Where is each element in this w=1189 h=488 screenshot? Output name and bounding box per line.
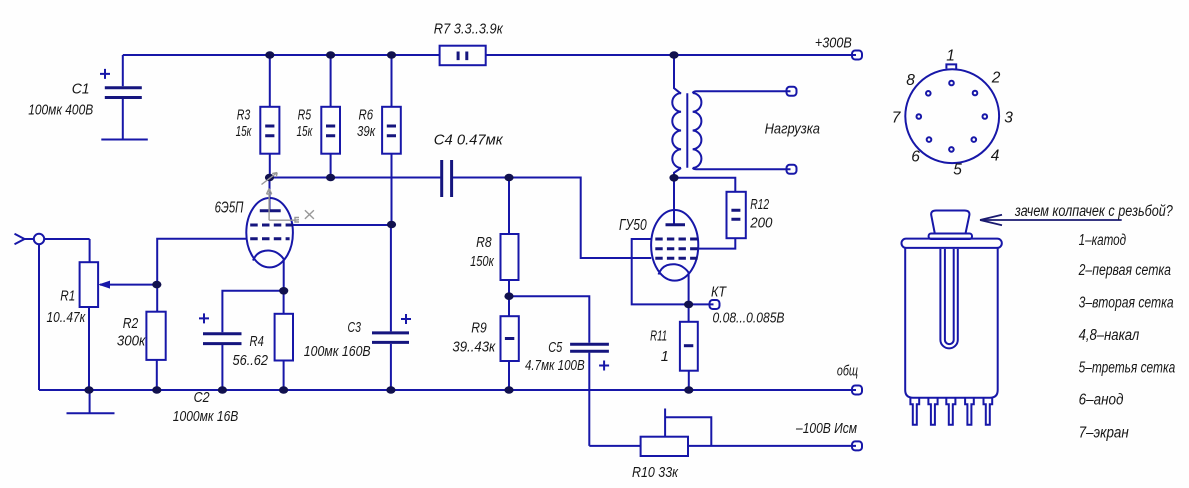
- svg-text:R10 33к: R10 33к: [632, 465, 679, 481]
- transformer primary: [672, 55, 681, 178]
- node anode bus R8: [504, 174, 513, 182]
- transformer core: [686, 93, 688, 168]
- terminal -100V: [852, 441, 862, 450]
- node rail R2: [152, 386, 161, 394]
- wire grid1 bus 6E5P: [157, 239, 246, 312]
- terminal common: [852, 386, 862, 395]
- wire to R12: [674, 178, 735, 192]
- svg-text:6: 6: [911, 149, 920, 166]
- tube pin d: [965, 398, 974, 425]
- svg-text:R4: R4: [250, 334, 264, 350]
- svg-text:ГУ50: ГУ50: [619, 217, 647, 234]
- socket pin 8: [926, 91, 931, 96]
- svg-text:100мк 160В: 100мк 160В: [304, 344, 371, 360]
- svg-text:100мк 400В: 100мк 400В: [28, 102, 93, 119]
- tube GU50: [651, 210, 698, 304]
- svg-text:10..47к: 10..47к: [47, 310, 87, 326]
- svg-text:R8: R8: [476, 235, 492, 251]
- capacitor C3: [372, 225, 411, 391]
- tube pin b: [928, 398, 937, 425]
- svg-text:3: 3: [1004, 110, 1013, 127]
- svg-text:2: 2: [991, 70, 1001, 87]
- node rail R5 top: [326, 51, 335, 59]
- tube cap base: [929, 234, 972, 240]
- svg-text:300к: 300к: [117, 334, 146, 350]
- resistor R6: [382, 55, 401, 225]
- svg-text:4.7мк 100В: 4.7мк 100В: [525, 358, 585, 374]
- annotation arrow cap: [980, 215, 1122, 226]
- tube pins: [910, 398, 992, 425]
- socket pin 4: [972, 137, 977, 142]
- terminal load bottom: [787, 165, 797, 174]
- svg-text:7: 7: [892, 110, 902, 127]
- tube pin e: [984, 398, 993, 425]
- gray ghost horizontal: [269, 219, 295, 221]
- wire anode bus: [270, 177, 441, 179]
- svg-text:0.08...0.085В: 0.08...0.085В: [713, 311, 785, 327]
- svg-text:–100В Исм: –100В Исм: [795, 421, 857, 437]
- socket pin 1: [949, 81, 954, 86]
- node cathode GU50: [684, 301, 693, 309]
- svg-text:R11: R11: [650, 329, 667, 345]
- socket pin 6: [927, 137, 932, 142]
- wire screen 6E5P to R6/C3: [293, 224, 392, 226]
- svg-text:общ: общ: [837, 364, 858, 380]
- node rail R4: [279, 386, 288, 394]
- ground: [67, 390, 115, 413]
- capacitor C2: [199, 313, 242, 390]
- node transformer bottom: [669, 174, 678, 182]
- svg-text:R6: R6: [359, 108, 374, 124]
- svg-text:2–первая сетка: 2–первая сетка: [1078, 262, 1171, 279]
- svg-text:8: 8: [906, 72, 915, 89]
- svg-text:56..62: 56..62: [233, 353, 269, 369]
- svg-text:Нагрузка: Нагрузка: [765, 121, 820, 138]
- wire suppressor grid to cathode: [632, 239, 689, 304]
- svg-text:С2: С2: [194, 390, 210, 406]
- socket pin 2: [973, 91, 978, 96]
- svg-text:5–третья сетка: 5–третья сетка: [1079, 360, 1176, 377]
- terminal KT: [710, 300, 720, 309]
- svg-text:R1: R1: [60, 289, 75, 305]
- wire cathode to C2: [222, 291, 283, 333]
- svg-text:С1: С1: [72, 81, 90, 98]
- resistor R3: [260, 55, 279, 178]
- svg-text:200: 200: [749, 216, 772, 232]
- svg-text:R9: R9: [471, 321, 487, 337]
- wire cathode to KT: [689, 303, 714, 305]
- tube 6E5P: [246, 178, 293, 291]
- tube top cap: [931, 211, 969, 234]
- anode U inner: [945, 249, 954, 344]
- socket pin 3: [983, 114, 988, 119]
- potentiometer R10: [589, 409, 856, 457]
- node wiper R1: [152, 281, 161, 289]
- node anode bus R3: [265, 174, 274, 182]
- potentiometer R1: [80, 262, 157, 390]
- socket pin 5: [949, 147, 954, 152]
- resistor R4: [275, 291, 293, 390]
- tube pin c: [946, 398, 955, 425]
- node cathode 6E5P: [279, 287, 288, 295]
- svg-text:R7 3.3..3.9к: R7 3.3..3.9к: [434, 22, 504, 38]
- svg-text:6–анод: 6–анод: [1079, 392, 1124, 409]
- svg-text:1: 1: [661, 349, 669, 365]
- svg-text:1–катод: 1–катод: [1079, 232, 1127, 249]
- input connector X1: [15, 234, 90, 390]
- gray X mark: [305, 210, 314, 219]
- resistor R9: [501, 296, 519, 390]
- wire top rail left of R7: [123, 54, 440, 56]
- node R8 R9 C5: [504, 292, 513, 300]
- svg-text:4: 4: [991, 148, 1000, 165]
- wire input to R1: [89, 239, 91, 262]
- tube rim: [902, 239, 1002, 248]
- transformer secondary: [693, 91, 791, 169]
- node rail R6 top: [387, 51, 396, 59]
- wire C4 to GU50 grid: [453, 178, 651, 259]
- svg-text:15к: 15к: [236, 124, 253, 140]
- resistor R8: [501, 178, 519, 297]
- svg-text:КТ: КТ: [711, 285, 727, 301]
- svg-text:39..43к: 39..43к: [452, 340, 496, 356]
- svg-text:R12: R12: [750, 197, 769, 213]
- socket pin 7: [917, 114, 922, 119]
- terminal +300V: [852, 51, 862, 60]
- node screen 6E5P: [387, 221, 396, 229]
- tube body: [905, 248, 998, 398]
- node rail R1: [84, 386, 93, 394]
- wire common rail: [39, 389, 856, 391]
- svg-text:5: 5: [953, 162, 962, 179]
- resistor R11: [680, 304, 698, 390]
- svg-text:С4 0.47мк: С4 0.47мк: [434, 133, 504, 149]
- gray ghost hook: [295, 218, 299, 223]
- svg-text:150к: 150к: [470, 254, 495, 270]
- node rail R3 top: [265, 51, 274, 59]
- wire anode GU50: [673, 178, 675, 225]
- node rail R11: [684, 386, 693, 394]
- tube socket circle: [905, 69, 999, 163]
- svg-text:С3: С3: [348, 320, 361, 336]
- resistor R12: [698, 192, 746, 249]
- svg-text:39к: 39к: [357, 124, 376, 140]
- svg-text:7–экран: 7–экран: [1079, 425, 1130, 442]
- wire top rail right of R7: [486, 54, 856, 56]
- node rail transformer: [669, 51, 678, 59]
- svg-text:+300В: +300В: [815, 35, 852, 52]
- capacitor C5: [570, 344, 609, 446]
- svg-text:зачем колпачек с резьбой?: зачем колпачек с резьбой?: [1014, 203, 1173, 220]
- svg-text:4,8–накал: 4,8–накал: [1079, 327, 1140, 344]
- node rail R9: [504, 386, 513, 394]
- svg-text:С5: С5: [548, 340, 563, 356]
- svg-text:3–вторая сетка: 3–вторая сетка: [1079, 295, 1174, 312]
- svg-text:6Э5П: 6Э5П: [215, 200, 244, 217]
- resistor R5: [321, 55, 340, 178]
- capacitor C1: [100, 55, 148, 140]
- svg-text:1: 1: [946, 48, 955, 65]
- anode U outer: [940, 249, 957, 349]
- node anode bus R5: [326, 174, 335, 182]
- svg-text:1000мк 16В: 1000мк 16В: [173, 409, 239, 425]
- socket pins: [917, 81, 988, 152]
- resistor R2: [146, 312, 165, 390]
- capacitor C4: [442, 160, 452, 197]
- node rail C2: [218, 386, 227, 394]
- node rail C3: [386, 386, 395, 394]
- svg-text:15к: 15к: [297, 124, 314, 140]
- svg-text:R3: R3: [237, 108, 251, 124]
- resistor R7: [440, 46, 486, 65]
- svg-text:R5: R5: [298, 108, 312, 124]
- gray ghost vertical with up arrow: [267, 189, 272, 221]
- terminal load top: [787, 87, 797, 96]
- tube pin a: [910, 398, 919, 425]
- gray ghost marker diagonal: [262, 173, 278, 185]
- tube inner anode U: [940, 249, 957, 349]
- wire R8/R9 node to C5: [509, 296, 589, 343]
- svg-text:R2: R2: [123, 316, 139, 332]
- socket key notch: [946, 64, 956, 68]
- socket pin numbers: [892, 48, 1014, 179]
